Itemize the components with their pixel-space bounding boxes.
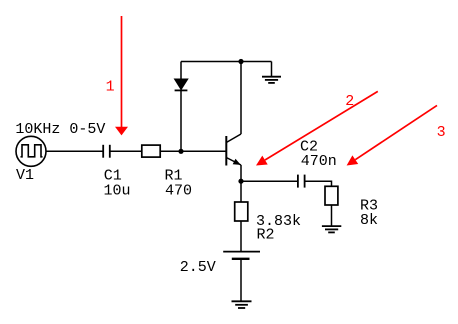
- svg-text:2: 2: [345, 93, 354, 110]
- wire battery to ground: [240, 259, 242, 302]
- wire diode to top rail: [180, 62, 182, 80]
- svg-text:470: 470: [165, 182, 192, 199]
- wire C1 to R1: [110, 150, 142, 152]
- transistor Q1: [226, 134, 241, 166]
- wire collector: [240, 62, 242, 135]
- svg-text:10KHz 0-5V: 10KHz 0-5V: [15, 121, 105, 138]
- resistor R2: [235, 202, 248, 221]
- wire emitter to C2: [241, 180, 298, 182]
- capacitor C1: [103, 145, 110, 158]
- capacitor C2: [298, 175, 305, 188]
- node base junction: [178, 149, 183, 154]
- probe arrow 1: [115, 16, 128, 135]
- wire R3 to ground: [331, 205, 333, 226]
- wire emitter node to R2: [240, 181, 242, 202]
- node emitter junction: [238, 179, 243, 184]
- node collector rail junction: [238, 59, 243, 64]
- wire top rail: [181, 61, 272, 63]
- voltage source V1: [16, 136, 46, 166]
- svg-text:R2: R2: [257, 226, 275, 243]
- battery 2.5V: [223, 252, 260, 259]
- wire rail to ground: [271, 62, 273, 77]
- wire emitter: [240, 165, 242, 181]
- probe arrow 3: [347, 105, 437, 165]
- svg-text:1: 1: [106, 78, 115, 95]
- resistor R3: [325, 186, 338, 205]
- ground top right: [262, 77, 281, 83]
- probe arrow 2: [256, 91, 378, 165]
- diode D1: [174, 79, 188, 91]
- resistor R1: [142, 145, 160, 157]
- wire diode to node: [180, 91, 182, 152]
- svg-text:8k: 8k: [360, 212, 378, 229]
- wire R1 to base: [160, 150, 226, 152]
- wire R2 to battery: [240, 221, 242, 252]
- wire C2 to R3: [305, 181, 332, 186]
- svg-text:V1: V1: [16, 167, 34, 184]
- ground bottom: [232, 301, 252, 308]
- wire V1 to C1: [46, 150, 103, 152]
- svg-text:2.5V: 2.5V: [180, 259, 216, 276]
- ground under R3: [322, 226, 341, 232]
- svg-text:3: 3: [437, 124, 446, 141]
- svg-text:10u: 10u: [104, 182, 131, 199]
- svg-text:470n: 470n: [301, 153, 337, 170]
